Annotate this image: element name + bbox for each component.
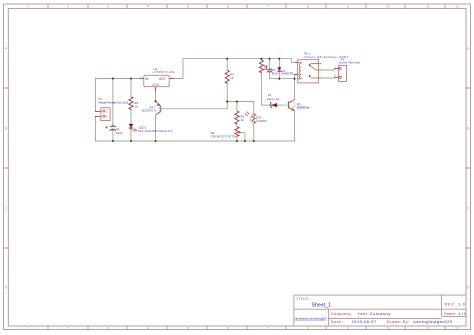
wire R6 wiper to rail	[242, 133, 245, 141]
capacitor C2	[265, 66, 272, 72]
junction R2 at 5V rail	[260, 58, 262, 60]
wire bottom ground rail	[96, 140, 295, 142]
svg-text:TRIMPOT3PTH: TRIMPOT3PTH	[211, 134, 236, 138]
svg-text:REV:: REV:	[445, 301, 456, 306]
svg-text:Screw Terminal: Screw Terminal	[339, 61, 360, 65]
LED LED1	[129, 123, 137, 131]
wire R2 top	[260, 59, 262, 60]
pin P1 1	[96, 111, 101, 113]
wire R3 to R6	[236, 123, 238, 127]
wire R6 bottom to rail	[236, 136, 238, 141]
wire Q2 collector to ground rail	[155, 115, 157, 141]
label Q1	[297, 102, 310, 109]
regulator U1	[141, 75, 173, 90]
svg-text:LDR07: LDR07	[258, 119, 268, 123]
svg-text:10: 10	[386, 326, 390, 330]
wire C2 top	[269, 59, 271, 69]
svg-text:4: 4	[147, 5, 149, 9]
svg-text:2019-08-07: 2019-08-07	[352, 319, 377, 324]
wire R5 top branch	[130, 79, 132, 97]
wire R4 bottom to node	[226, 82, 228, 101]
wire LDR R1 bottom to rail	[253, 124, 255, 141]
svg-text:TITLE:: TITLE:	[296, 297, 309, 301]
svg-text:L7805CV-DG: L7805CV-DG	[153, 70, 176, 74]
junction Q1 collector / coil	[293, 78, 295, 80]
svg-text:1.0: 1.0	[458, 301, 466, 306]
label C2	[272, 68, 279, 75]
svg-text:C: C	[5, 206, 8, 210]
junction R6 bottom rail	[236, 140, 238, 142]
wire U1 GND down to Q2 emitter	[155, 91, 157, 101]
wire vertical link base to divider node	[226, 102, 228, 109]
junction R1 bottom rail	[253, 140, 255, 142]
junction C1 top	[112, 77, 114, 79]
svg-text:D: D	[5, 285, 8, 289]
pin U1 OUT	[169, 78, 173, 80]
label C1	[116, 127, 123, 135]
relay switch	[310, 62, 321, 64]
wire node to R3	[236, 102, 238, 111]
wire U1 OUT up to 5V rail	[173, 59, 183, 79]
svg-text:Company:: Company:	[331, 311, 352, 316]
svg-text:Zener 1w: Zener 1w	[267, 97, 280, 101]
junction D1 bottom	[278, 78, 280, 80]
pin relay coil plus	[295, 61, 298, 63]
resistor R3	[235, 111, 239, 124]
wire relay NO contact to terminal	[322, 69, 334, 71]
svg-text:5: 5	[187, 326, 189, 330]
transistor Q1	[288, 101, 295, 108]
wire Q1 collector	[294, 79, 296, 100]
svg-text:GND: GND	[152, 83, 160, 87]
wire 5V top rail	[183, 59, 295, 63]
Q2 emitter arrow	[157, 104, 160, 106]
svg-text:Sheet:: Sheet:	[444, 311, 456, 316]
wire R2 bottom to zener	[261, 72, 269, 106]
svg-text:1k: 1k	[134, 105, 138, 109]
svg-text:1N4007RL: 1N4007RL	[281, 71, 295, 75]
svg-text:10uF: 10uF	[272, 72, 279, 76]
svg-text:BC557C: BC557C	[142, 109, 154, 113]
label Z1	[267, 93, 280, 101]
junction C2 at 5V rail	[268, 58, 270, 60]
terminal P2	[338, 65, 346, 81]
wire D1 top	[278, 59, 280, 67]
connector P1	[101, 108, 110, 121]
resistor R5	[129, 97, 133, 110]
label R3	[240, 114, 244, 122]
photoresistor R1	[245, 111, 257, 124]
svg-text:11: 11	[426, 5, 430, 9]
svg-text:5: 5	[187, 5, 189, 9]
wire snubber bus	[270, 78, 295, 80]
node A divider left	[226, 101, 228, 103]
svg-text:Drawn By:: Drawn By:	[387, 319, 410, 324]
label R6	[211, 131, 236, 138]
wire D1 bottom	[278, 72, 280, 79]
top ticks	[48, 4, 445, 9]
svg-text:9: 9	[347, 326, 349, 330]
svg-text:8: 8	[307, 5, 309, 9]
svg-text:4: 4	[147, 326, 149, 330]
svg-text:1: 1	[27, 5, 29, 9]
svg-text:3: 3	[107, 5, 109, 9]
svg-text:Date:: Date:	[331, 319, 343, 324]
left ticks	[4, 88, 9, 248]
label P2	[339, 57, 360, 64]
svg-text:12: 12	[455, 326, 459, 330]
wire C2 bottom	[269, 72, 271, 78]
svg-text:3: 3	[107, 326, 109, 330]
svg-text:1: 1	[27, 326, 29, 330]
svg-text:BC547B Tube: BC547B Tube	[297, 105, 310, 109]
wire R5 to LED1	[130, 109, 132, 124]
svg-text:204-10SURD/S530-A3: 204-10SURD/S530-A3	[138, 129, 172, 133]
bottom ticks	[48, 326, 445, 330]
svg-text:1k: 1k	[241, 118, 245, 122]
zener Z1	[269, 102, 277, 108]
node B divider R3	[236, 101, 238, 103]
svg-text:Sheet_1: Sheet_1	[312, 303, 332, 309]
svg-text:6: 6	[227, 5, 229, 9]
junction R4 at 5V rail	[226, 58, 228, 60]
svg-text:OUT: OUT	[159, 77, 166, 81]
wire relay coil minus	[294, 75, 296, 79]
wire node to LDR R1	[253, 102, 255, 114]
wire C1 top branch	[112, 79, 114, 125]
label RL1	[304, 51, 348, 58]
relay coil	[298, 62, 301, 63]
svg-text:D: D	[467, 285, 470, 289]
svg-text:7: 7	[267, 326, 269, 330]
wire P1 pin2 down	[95, 117, 97, 141]
svg-text:12: 12	[455, 5, 459, 9]
Q1 emitter arrow	[291, 108, 294, 110]
svg-text:Header-Female-2.54_1x02: Header-Female-2.54_1x02	[98, 100, 128, 104]
trimmer R6	[235, 127, 242, 137]
svg-text:1k: 1k	[230, 76, 234, 80]
svg-text:7: 7	[267, 5, 269, 9]
wire left vertical to P1 pin1	[95, 79, 97, 112]
label Q2	[142, 105, 154, 112]
svg-text:https://easyeda.com/pankajbhag: https://easyeda.com/pankajbhagat229	[295, 317, 327, 321]
pin terminal 2	[334, 76, 338, 78]
pin U1 GND	[155, 87, 157, 91]
svg-text:9: 9	[347, 5, 349, 9]
transistor Q2	[154, 105, 161, 112]
svg-text:6: 6	[227, 326, 229, 330]
wire zener to Q1 base	[277, 104, 286, 106]
label R1	[258, 116, 268, 123]
pin relay coil minus	[295, 74, 298, 76]
junction Q2 emitter	[154, 100, 156, 102]
svg-text:2: 2	[67, 5, 69, 9]
pin U1 IN	[140, 78, 144, 80]
label LED1	[138, 126, 172, 134]
wire C1 bottom	[112, 131, 114, 141]
wire Q1 emitter to rail	[294, 111, 296, 141]
wire input top rail	[96, 78, 140, 80]
wire Q2 base horizontal	[161, 108, 228, 110]
svg-text:10uF: 10uF	[116, 131, 123, 135]
relay RL1	[298, 60, 319, 83]
pin P1 2	[96, 116, 101, 118]
capacitor C1	[105, 124, 116, 131]
wire relay common to terminal	[322, 76, 334, 79]
svg-text:Your Company: Your Company	[357, 311, 390, 316]
resistor R4	[225, 70, 229, 83]
junction Q2 collector rail	[154, 140, 156, 142]
junction D1 at 5V rail	[278, 58, 280, 60]
svg-text:2: 2	[67, 326, 69, 330]
wire 5V rail to R4	[226, 59, 228, 70]
svg-text:11: 11	[426, 326, 430, 330]
right ticks	[466, 88, 471, 248]
label R2	[264, 64, 268, 71]
svg-text:10: 10	[386, 5, 390, 9]
svg-text:pankajbhagat229: pankajbhagat229	[414, 319, 453, 324]
diode D1	[277, 67, 281, 72]
svg-text:C: C	[467, 206, 470, 210]
junction R5 top	[130, 77, 132, 79]
wire divider node horizontal	[227, 101, 254, 103]
label R4	[230, 72, 234, 79]
svg-text:1/1: 1/1	[459, 311, 467, 316]
label R5	[134, 101, 138, 108]
junction C1 bottom rail	[112, 140, 114, 142]
wire LED1 bottom	[130, 130, 132, 141]
label U1	[153, 67, 176, 74]
pin terminal 1	[334, 68, 338, 70]
junction R6 wiper rail	[244, 140, 246, 142]
resistor R2	[259, 60, 263, 73]
svg-text:8: 8	[307, 326, 309, 330]
junction LED1 bottom rail	[130, 140, 132, 142]
label P1	[98, 97, 128, 104]
label D1	[281, 69, 295, 75]
